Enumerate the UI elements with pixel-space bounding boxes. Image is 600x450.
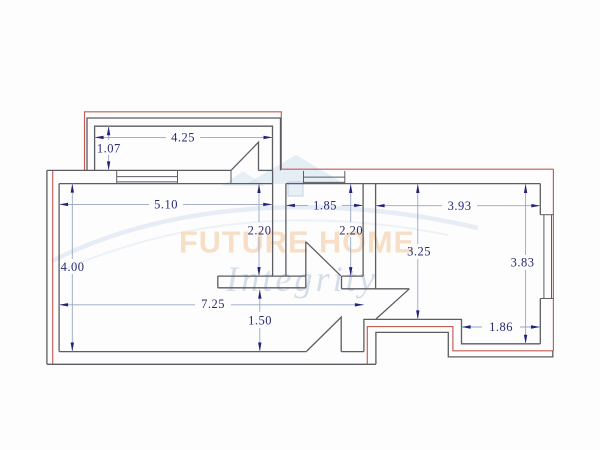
red boundary right wall	[552, 169, 554, 351]
svg-text:7.25: 7.25	[201, 297, 225, 311]
wall top main edge left segment	[47, 169, 231, 171]
svg-text:3.25: 3.25	[407, 245, 431, 259]
dimension 1.85	[286, 199, 363, 213]
entry door leaf A	[307, 317, 342, 351]
niche ledge lines	[304, 176, 345, 178]
niche jamb right	[344, 171, 346, 184]
wall left outer	[46, 170, 48, 364]
right window glass lines	[543, 215, 545, 299]
right window tick top	[540, 214, 553, 216]
dimension 1.07	[97, 126, 121, 170]
wall top inner edge hall and right room	[286, 183, 540, 185]
hall bottom ledge	[342, 288, 410, 290]
watermark house roof big	[246, 155, 345, 184]
entry threshold	[341, 351, 364, 353]
interior door leaf vertical	[305, 242, 307, 276]
dimension 3.93	[376, 199, 541, 213]
window jamb 3	[230, 170, 232, 183]
dimension 2.20 left	[248, 184, 272, 276]
dimension 4.00	[61, 184, 85, 352]
watermark swoosh 1	[52, 207, 478, 261]
window jamb 2	[177, 170, 179, 183]
wall right room left	[375, 184, 377, 289]
dimension 2.20 right	[339, 184, 363, 276]
watermark swoosh 2	[60, 220, 448, 271]
window glass lines	[117, 176, 178, 178]
dimension 1.50	[248, 290, 272, 352]
wall balcony outer	[87, 118, 281, 170]
svg-text:Integrity: Integrity	[225, 259, 378, 299]
wall right room inner upper	[539, 184, 541, 215]
wall living-hall line 1	[272, 170, 274, 276]
interior wall band bottom	[218, 287, 306, 289]
dimension 7.25	[59, 297, 364, 311]
svg-text:1.07: 1.07	[97, 141, 121, 155]
wall balcony inner	[95, 126, 273, 170]
svg-text:3.83: 3.83	[511, 256, 535, 270]
wall bottom outer	[47, 363, 376, 365]
step inner polyline	[364, 319, 540, 351]
wall bottom inner	[59, 351, 306, 353]
red boundary bottom right step	[367, 327, 553, 365]
svg-text:5.10: 5.10	[154, 198, 178, 212]
watermark house door	[288, 182, 303, 196]
wall right room inner lower	[539, 299, 541, 344]
dimension 3.25	[407, 184, 431, 319]
hall bottom block top	[342, 275, 364, 277]
dimension 4.25	[95, 131, 273, 145]
entry door leaf B diagonal	[376, 289, 409, 319]
wall top main edge right of balcony door	[259, 169, 273, 171]
svg-text:4.00: 4.00	[61, 260, 85, 274]
svg-text:1.85: 1.85	[313, 199, 337, 213]
svg-text:2.20: 2.20	[339, 223, 363, 237]
red boundary top wall	[281, 168, 553, 170]
dimension 3.83	[511, 184, 535, 344]
hall bottom block left	[341, 276, 343, 289]
svg-text:2.20: 2.20	[248, 223, 272, 237]
red boundary balcony	[85, 112, 282, 171]
wall living-hall line 2	[285, 184, 287, 277]
window jamb 1	[116, 170, 118, 183]
niche jamb left	[303, 171, 305, 184]
svg-text:4.25: 4.25	[171, 131, 195, 145]
dimension 1.86	[462, 320, 540, 334]
svg-text:1.50: 1.50	[248, 314, 272, 328]
wall left inner	[58, 184, 60, 352]
svg-text:1.86: 1.86	[489, 320, 513, 334]
wall top inner edge living room	[59, 183, 273, 185]
watermark house roof small	[221, 171, 265, 186]
interior door leaf diagonal	[306, 242, 341, 276]
step outer polyline	[376, 332, 553, 364]
svg-text:FUTURE HOME: FUTURE HOME	[179, 225, 415, 260]
right window tick bottom	[540, 298, 553, 300]
balcony door leaf	[231, 142, 259, 170]
wall hall right	[362, 184, 364, 277]
svg-text:3.93: 3.93	[448, 199, 472, 213]
dimension 5.10	[59, 198, 272, 212]
interior wall band top	[218, 275, 306, 277]
interior wall band left cap	[217, 276, 219, 288]
interior wall band right cap	[305, 276, 307, 288]
red boundary left wall	[52, 170, 54, 364]
